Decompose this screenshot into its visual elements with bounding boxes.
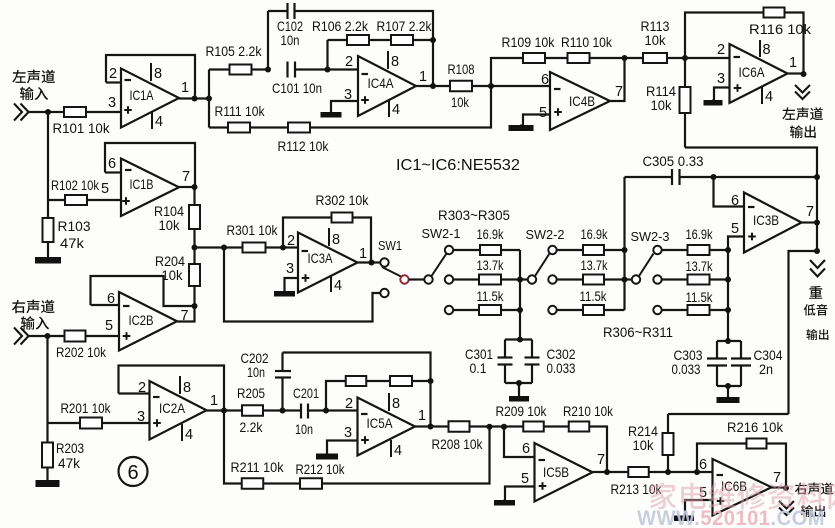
wire input to R101 <box>29 111 65 113</box>
node C305 right junction <box>711 174 717 180</box>
svg-text:6: 6 <box>699 457 707 473</box>
wire IC1A output <box>179 97 209 99</box>
svg-text:10k: 10k <box>159 217 181 233</box>
op-amp IC2A <box>150 381 207 440</box>
resistor R112 <box>288 123 310 133</box>
ground IC5B <box>494 500 515 506</box>
wire SW2-2 common vertical <box>623 177 625 310</box>
svg-text:1: 1 <box>418 408 426 424</box>
node R214 bottom junction <box>665 469 671 475</box>
svg-text:2.2k: 2.2k <box>240 419 264 435</box>
wire top feedback line <box>268 10 288 12</box>
node SW2-2 common 16.9k <box>622 247 628 253</box>
svg-text:R216 10k: R216 10k <box>727 419 784 435</box>
node IC3A output <box>369 260 375 266</box>
resistor R107 <box>391 35 413 45</box>
node R104 R204 junction <box>192 245 198 251</box>
op-amp IC2A feedback box wire <box>119 366 225 411</box>
wire R302 loop <box>283 218 332 248</box>
node IC4A output <box>430 83 436 89</box>
wire R216 loop <box>697 444 747 473</box>
wire R112 to IC4B node <box>310 86 491 128</box>
svg-text:13.7k: 13.7k <box>581 257 609 273</box>
node IC1B output <box>192 184 198 190</box>
svg-text:IC6A: IC6A <box>739 64 766 80</box>
watermark text <box>649 482 835 509</box>
svg-text:R101 10k: R101 10k <box>53 120 111 136</box>
svg-text:6: 6 <box>127 462 138 484</box>
svg-text:5: 5 <box>521 471 529 487</box>
wire R116 loop left <box>685 13 763 59</box>
resistor R111 <box>228 123 250 133</box>
node IC2A output <box>221 408 227 414</box>
node SW2-1 common 11.5k <box>517 307 523 313</box>
wire R311 row <box>662 309 688 311</box>
svg-text:R210 10k: R210 10k <box>563 403 614 419</box>
svg-text:WWW.520101.COM: WWW.520101.COM <box>637 506 825 528</box>
node feedback right junction <box>428 378 434 384</box>
resistor R106 <box>347 35 369 45</box>
node left input terminal <box>14 104 29 121</box>
svg-text:R107 2.2k: R107 2.2k <box>377 18 433 34</box>
node right input terminal <box>14 328 29 345</box>
node R110 output <box>622 55 628 61</box>
resistor R207 <box>390 376 412 386</box>
svg-text:8: 8 <box>762 42 770 58</box>
resistor R310 13.7k <box>688 275 710 285</box>
wire IC6B output <box>772 486 787 488</box>
wire R307 row <box>557 278 583 280</box>
switch SW2-3 contact 2 <box>653 275 661 283</box>
wire R209 R210 <box>544 425 569 427</box>
node C303 bottom junction <box>725 383 731 389</box>
wire R105 line <box>209 68 230 70</box>
node SW2-1 common 13.7k <box>517 277 523 283</box>
svg-text:10k: 10k <box>633 437 655 453</box>
wire C201 to IC5A pin2 <box>308 409 358 411</box>
node IC6B output <box>783 485 789 491</box>
svg-text:0.1: 0.1 <box>470 360 487 376</box>
capacitor C102 <box>288 3 295 19</box>
op-amp IC4B <box>550 72 610 130</box>
switch SW2-2 pole <box>528 275 536 283</box>
wire IC4B output <box>610 58 625 101</box>
svg-text:10k: 10k <box>451 94 470 110</box>
switch SW1 contact A <box>380 258 388 266</box>
resistor R211 <box>242 478 264 489</box>
switch SW2-1 contact 3 <box>445 306 453 314</box>
svg-text:IC4B: IC4B <box>569 93 595 109</box>
svg-text:10k: 10k <box>162 267 184 283</box>
wire R305 row <box>453 309 479 311</box>
op-amp IC3B <box>744 193 802 253</box>
svg-text:IC1A: IC1A <box>130 87 155 103</box>
resistor R216 <box>747 439 767 449</box>
svg-text:4: 4 <box>334 278 342 294</box>
wire R201 line <box>48 422 81 424</box>
svg-text:R203: R203 <box>56 440 84 456</box>
resistor R214 <box>663 433 674 455</box>
svg-text:16.9k: 16.9k <box>581 226 609 242</box>
wire R110 to R113 <box>590 57 644 59</box>
ground IC3A <box>274 291 295 297</box>
svg-text:13.7k: 13.7k <box>686 258 714 274</box>
wire IC5A top feedback <box>283 353 431 427</box>
resistor R208 <box>449 421 470 432</box>
capacitor C302 <box>525 358 540 365</box>
svg-text:10n: 10n <box>295 421 313 437</box>
wire R208 to R209 <box>470 425 524 427</box>
wire IC2A output down <box>224 411 242 484</box>
svg-text:5: 5 <box>731 221 739 237</box>
wire SW1 bypass loop <box>224 248 380 322</box>
resistor R203 <box>42 443 53 468</box>
op-amp IC5B <box>535 443 593 502</box>
wire IC6A output <box>788 72 804 74</box>
svg-text:R205: R205 <box>237 385 265 401</box>
pin 4 stub IC2A <box>181 424 183 441</box>
wire C305 line <box>625 176 673 178</box>
resistor R213 <box>628 467 649 477</box>
wire IC5B output <box>593 471 629 473</box>
circled figure number 6 <box>119 457 148 486</box>
svg-text:SW2-3: SW2-3 <box>631 229 670 244</box>
wire R101 to IC1A pin3 <box>86 111 121 113</box>
svg-text:1: 1 <box>210 393 218 409</box>
resistor R303 16.9k <box>480 245 501 255</box>
wire IC6B pin5 to ground <box>685 500 713 516</box>
svg-text:R102 10k: R102 10k <box>51 177 100 193</box>
node IC5A pin2 junction <box>323 408 329 414</box>
svg-text:5: 5 <box>105 318 113 334</box>
wire R214 top to subwoofer node <box>668 413 789 415</box>
wire IC5A output <box>415 425 449 427</box>
node IC5B output <box>604 469 610 475</box>
wire C303 C304 top <box>717 340 741 342</box>
svg-text:2n: 2n <box>759 361 773 377</box>
resistor R305 11.5k <box>479 305 501 315</box>
pin 4 stub IC5A <box>390 440 392 457</box>
svg-text:7: 7 <box>806 204 814 220</box>
wire R102 to IC1B pin5 <box>48 199 65 201</box>
wire IC3B pin5 <box>728 237 744 251</box>
svg-text:8: 8 <box>154 66 162 82</box>
wire R211 R212 <box>264 482 301 484</box>
ground IC6A <box>704 100 723 106</box>
wire IC3A pin3 to ground <box>285 278 299 291</box>
ground IC4A <box>321 112 342 118</box>
svg-text:6: 6 <box>108 156 116 172</box>
resistor R204 <box>189 264 200 286</box>
node left-channel output terminal <box>795 85 810 99</box>
node C301 bottom junction <box>516 380 522 386</box>
svg-text:C101 10n: C101 10n <box>272 80 322 96</box>
wire R306 row <box>557 249 583 251</box>
pin 8 stub IC1A <box>150 63 152 81</box>
svg-text:SW2-2: SW2-2 <box>526 227 565 242</box>
svg-text:IC4A: IC4A <box>368 75 395 91</box>
switch SW2-2 contact 2 <box>548 275 556 283</box>
node right input junction <box>45 333 51 339</box>
svg-text:4: 4 <box>185 427 193 443</box>
pin 8 stub IC6A <box>759 40 761 57</box>
resistor R113 <box>643 53 667 63</box>
wire pin2 up to R106 <box>326 40 328 70</box>
node subwoofer output terminal <box>810 260 825 277</box>
wire IC2B pin6 stub <box>91 304 120 306</box>
switch SW2-1 arm <box>432 254 447 277</box>
svg-text:R103: R103 <box>58 218 91 234</box>
resistor R309 16.9k <box>688 245 710 255</box>
svg-text:R301 10k: R301 10k <box>227 222 279 238</box>
wire R213 to IC6B pin6 <box>649 471 713 473</box>
node C202 junction <box>280 408 286 414</box>
node R108 output junction <box>488 83 494 89</box>
pin 8 stub IC4A <box>387 51 389 69</box>
switch SW1 contact B <box>380 289 388 297</box>
wire IC5A resistor feedback <box>326 381 346 411</box>
svg-text:2: 2 <box>717 42 725 58</box>
wire R114 to IC3B output <box>685 148 817 254</box>
resistor R212 <box>300 478 322 489</box>
svg-text:C305 0.33: C305 0.33 <box>643 153 704 169</box>
pin 4 stub IC6A <box>761 87 763 104</box>
op-amp IC6B <box>713 459 772 516</box>
wire node A up <box>267 11 269 70</box>
svg-text:6: 6 <box>107 291 115 307</box>
svg-text:IC2A: IC2A <box>159 400 186 416</box>
svg-text:R109 10k: R109 10k <box>502 34 556 50</box>
wire IC2A output <box>207 409 243 411</box>
wire right input down <box>46 336 48 423</box>
op-amp IC1A <box>121 69 179 128</box>
wire IC1A pin2 stub <box>106 81 121 83</box>
node input junction <box>45 109 51 115</box>
svg-text:10n: 10n <box>247 364 265 380</box>
node SW2-3 common 13.7k <box>725 277 731 283</box>
svg-text:R302 10k: R302 10k <box>316 192 370 208</box>
svg-text:6: 6 <box>731 193 739 209</box>
svg-text:R209 10k: R209 10k <box>496 403 548 419</box>
svg-text:16.9k: 16.9k <box>477 226 505 242</box>
wire IC6A pin3 to ground <box>714 88 730 101</box>
node IC6A output <box>801 71 807 77</box>
svg-text:IC3A: IC3A <box>308 250 334 266</box>
pin 8 stub IC3A <box>328 228 330 246</box>
switch SW2-3 arm <box>639 254 654 277</box>
wire junction up to R109 <box>491 58 523 86</box>
node left-channel output label <box>782 107 823 120</box>
svg-text:IC5A: IC5A <box>367 415 394 431</box>
resistor R301 <box>243 243 266 253</box>
svg-text:R211 10k: R211 10k <box>231 459 285 475</box>
wire R301 line <box>195 246 243 248</box>
svg-text:11.5k: 11.5k <box>686 289 714 305</box>
svg-text:R108: R108 <box>448 61 475 77</box>
resistor R308 11.5k <box>583 305 604 315</box>
svg-text:SW2-1: SW2-1 <box>422 226 461 241</box>
svg-text:13.7k: 13.7k <box>477 257 505 273</box>
capacitor C303 <box>707 359 727 366</box>
svg-text:10k: 10k <box>645 32 667 48</box>
node A junction <box>265 67 271 73</box>
resistor R306 16.9k <box>583 245 604 255</box>
wire R303 row <box>453 249 480 251</box>
node C303 top junction <box>725 338 731 344</box>
resistor R101 <box>64 107 86 117</box>
node SW2-3 common 11.5k <box>725 307 731 313</box>
svg-text:1: 1 <box>419 69 427 85</box>
pin 8 stub IC5A <box>388 393 390 411</box>
wire subwoofer tap to R214 line <box>789 251 818 414</box>
resistor R206 <box>346 376 367 386</box>
wire SW2-1 common vertical <box>519 250 521 340</box>
svg-text:2: 2 <box>109 66 117 82</box>
node left-channel input label <box>12 70 55 84</box>
capacitor C301 <box>498 358 513 365</box>
capacitor C304 <box>731 359 751 366</box>
wire R116 to output <box>785 13 804 75</box>
ground C303 C304 <box>717 397 740 404</box>
svg-text:2: 2 <box>287 233 295 249</box>
resistor R109 <box>523 53 545 63</box>
svg-text:R212 10k: R212 10k <box>296 461 346 477</box>
svg-text:2: 2 <box>345 54 353 70</box>
resistor R201 <box>80 418 102 429</box>
svg-text:8: 8 <box>392 396 400 412</box>
resistor R302 <box>332 213 353 223</box>
svg-text:R202 10k: R202 10k <box>56 344 107 360</box>
svg-text:6: 6 <box>522 441 530 457</box>
capacitor C201 <box>301 404 308 419</box>
switch SW2-2 contact 1 <box>548 246 556 254</box>
svg-text:3: 3 <box>286 261 294 277</box>
wire input to R202 <box>29 335 65 337</box>
wire R210 to IC5B output <box>589 427 607 473</box>
op-amp IC3A <box>298 233 358 293</box>
resistor R114 <box>680 87 691 113</box>
svg-text:R105 2.2k: R105 2.2k <box>206 43 263 59</box>
wire IC4A pin3 to ground <box>331 101 358 112</box>
node IC3A pin2 junction <box>280 245 286 251</box>
op-amp IC1B feedback box wire <box>105 143 195 187</box>
svg-text:C201: C201 <box>293 385 319 401</box>
resistor R104 <box>189 205 200 229</box>
resistor R116 <box>764 8 785 18</box>
svg-text:16.9k: 16.9k <box>686 226 714 242</box>
svg-text:5: 5 <box>539 105 547 121</box>
svg-text:8: 8 <box>332 232 340 248</box>
op-amp IC1B <box>121 159 179 217</box>
resistor R311 11.5k <box>688 305 710 315</box>
op-amp IC6A <box>730 44 788 103</box>
svg-text:7: 7 <box>773 470 781 486</box>
svg-text:47k: 47k <box>60 235 85 251</box>
op-amp IC2B feedback box wire <box>91 276 195 306</box>
wire IC3B output <box>802 221 818 223</box>
wire IC4B pin5 to ground <box>523 115 550 126</box>
capacitor C101 <box>288 62 296 78</box>
wire input down <box>47 112 49 200</box>
capacitor C305 <box>672 169 680 185</box>
node subwoofer output label <box>809 286 822 299</box>
resistor R102 <box>65 195 87 205</box>
resistor R103 <box>43 218 54 242</box>
switch SW2-3 contact 3 <box>653 306 661 314</box>
svg-text:0.033: 0.033 <box>672 361 701 377</box>
wire C301 C302 top <box>505 338 532 340</box>
wire IC1B output <box>179 186 195 188</box>
wire R109 R110 <box>545 57 568 59</box>
svg-text:1: 1 <box>359 246 367 262</box>
svg-text:4: 4 <box>392 102 400 118</box>
node subwoofer tap <box>814 248 820 254</box>
node R208 out junction <box>487 424 493 430</box>
svg-text:7: 7 <box>615 84 623 100</box>
svg-text:4: 4 <box>765 89 773 105</box>
switch SW2-1 pole <box>424 275 432 283</box>
switch SW1 arm <box>382 267 401 277</box>
svg-text:IC3B: IC3B <box>753 212 779 228</box>
node feedback junction <box>430 37 436 43</box>
svg-text:R106 2.2k: R106 2.2k <box>312 18 369 34</box>
capacitor C202 <box>281 378 283 411</box>
svg-text:SW1: SW1 <box>378 238 402 253</box>
svg-text:3: 3 <box>108 95 116 111</box>
ground C301 C302 <box>509 396 529 402</box>
resistor R209 <box>523 422 544 432</box>
wire IC3A output <box>358 261 381 263</box>
wire R212 up to R208 node <box>322 427 490 484</box>
wire R202 to IC2B pin5 <box>86 335 120 337</box>
wire IC2B output <box>177 306 195 322</box>
node IC5A output <box>428 424 434 430</box>
wire SW2-3 common vertical <box>727 250 729 341</box>
switch SW2-1 contact 1 <box>445 246 453 254</box>
wire IC4A output <box>416 85 450 87</box>
svg-text:2: 2 <box>345 396 353 412</box>
wire IC1B pin6 stub <box>105 171 121 173</box>
svg-text:1: 1 <box>181 80 189 96</box>
svg-text:47k: 47k <box>58 455 81 471</box>
svg-text:10n: 10n <box>281 32 300 48</box>
resistor R205 <box>242 405 263 416</box>
node right-channel output label <box>795 482 833 494</box>
svg-text:10k: 10k <box>651 97 673 113</box>
switch SW1 pole <box>400 275 408 283</box>
wire R108 to pin6 <box>472 85 550 87</box>
svg-text:4: 4 <box>155 114 163 130</box>
node SW2-2 common 13.7k <box>622 277 628 283</box>
resistor R105 <box>230 65 252 75</box>
wire output branch vertical <box>208 70 210 128</box>
node R113 output junction <box>682 55 688 61</box>
wire IC5A pin3 to ground <box>327 441 358 454</box>
svg-text:R306~R311: R306~R311 <box>603 324 673 340</box>
node IC2B output <box>192 303 198 309</box>
svg-text:8: 8 <box>183 380 191 396</box>
wire C305 to IC3B pin6 <box>714 177 745 207</box>
resistor R108 <box>450 81 472 92</box>
svg-text:5: 5 <box>101 181 109 197</box>
resistor R304 13.7k <box>479 275 501 285</box>
svg-text:R208 10k: R208 10k <box>432 436 484 452</box>
svg-text:3: 3 <box>344 425 352 441</box>
resistor R110 <box>568 53 590 63</box>
switch SW2-2 contact 3 <box>548 306 556 314</box>
pin 8 stub IC2A <box>179 376 181 394</box>
wire R205 to C201 <box>263 409 301 411</box>
